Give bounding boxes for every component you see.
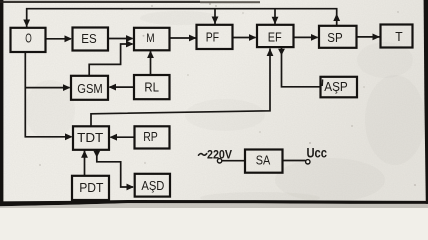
wire O to ES [46, 38, 71, 40]
svg-text:RP: RP [143, 130, 158, 144]
arrowhead into TDT left [65, 133, 73, 140]
arrowhead TDT down toward ASD [93, 151, 100, 158]
terminal circle 220V [217, 159, 221, 163]
arrowhead into T left [373, 34, 381, 41]
arrowhead into GSM left [63, 84, 71, 91]
block RP [135, 126, 170, 148]
svg-text:M: M [146, 33, 154, 45]
svg-text:RL: RL [144, 81, 159, 95]
block RL [134, 75, 170, 99]
block ES [73, 28, 109, 51]
arrowhead into ASD left [127, 184, 135, 191]
wire O feedback trunk down [25, 53, 71, 137]
arrowhead into ES left [65, 35, 73, 42]
svg-text:T: T [395, 30, 403, 44]
svg-text:GSM: GSM [77, 82, 103, 96]
arrowhead into PF top [212, 17, 219, 25]
wire SP to T [357, 36, 380, 38]
block SA [245, 150, 283, 173]
block GSM [71, 76, 108, 100]
wire TDT to EF [91, 49, 270, 126]
frame left border [0, 0, 3, 204]
block SP [319, 26, 357, 48]
wire PDT to TDT [84, 151, 86, 176]
block T [381, 25, 413, 48]
arrowhead into EF top [272, 17, 279, 25]
block ASD [135, 174, 170, 197]
frame right border [424, 0, 428, 204]
wire AGC top bus [27, 9, 337, 27]
block EF [257, 25, 294, 47]
block PDT [72, 176, 109, 200]
arrowhead into PF left [189, 35, 197, 42]
wire M to PF [170, 37, 196, 39]
svg-text:EF: EF [268, 30, 282, 44]
wire GSM to M staircase [89, 44, 132, 76]
wire SA to Ucc terminal [283, 160, 306, 162]
block O [11, 28, 46, 52]
svg-text:AŞD: AŞD [141, 179, 164, 193]
block PF [197, 25, 233, 49]
wire trunk branch to GSM [25, 87, 69, 89]
label ASP tick mark [321, 79, 323, 86]
arrowhead into GSM right from RL [109, 84, 117, 91]
wire 220V terminal to SA [222, 160, 245, 162]
svg-text:Ucc: Ucc [306, 145, 327, 160]
svg-text:O: O [25, 31, 32, 45]
wire ES to M [109, 38, 133, 40]
svg-text:SP: SP [327, 31, 342, 45]
wire top bus drop to EF [274, 9, 276, 25]
wire top bus drop to PF [214, 9, 216, 24]
block TDT [73, 126, 109, 150]
arrowhead into M bottom from RL [147, 51, 154, 59]
label 220V tilde [199, 154, 207, 156]
arrowhead into SP left [311, 34, 319, 41]
frame bottom border [0, 200, 428, 206]
wire RP to TDT [111, 136, 135, 138]
svg-text:PF: PF [206, 30, 220, 44]
svg-text:220V: 220V [207, 149, 232, 162]
terminal circle Ucc [306, 160, 310, 164]
wire EF to ASP [282, 47, 320, 87]
arrowhead into M left from ES [126, 35, 134, 42]
arrowhead EF down toward ASP [278, 49, 285, 56]
arrowhead into O top [23, 20, 30, 28]
wire PF to EF [233, 37, 256, 39]
arrowhead into TDT bottom from PDT [81, 150, 88, 158]
svg-text:AŞP: AŞP [324, 80, 348, 94]
wire RL to M [150, 52, 152, 75]
arrowhead into EF left [249, 34, 257, 41]
block M [134, 28, 170, 51]
svg-text:PDT: PDT [79, 181, 103, 195]
arrowhead into M left from GSM [126, 41, 134, 48]
arrowhead into EF bottom from TDT [267, 49, 274, 57]
block ASP [321, 77, 358, 98]
svg-text:ES: ES [81, 32, 96, 46]
svg-text:TDT: TDT [77, 131, 104, 145]
wire TDT to ASD [97, 150, 133, 187]
arrowhead SP up into top bus [333, 14, 340, 22]
arrowhead into TDT right from RP [110, 134, 118, 141]
wire EF to SP [294, 36, 318, 38]
frame top border [0, 1, 200, 3]
wire RL to GSM [110, 86, 134, 88]
svg-text:SA: SA [256, 154, 271, 168]
